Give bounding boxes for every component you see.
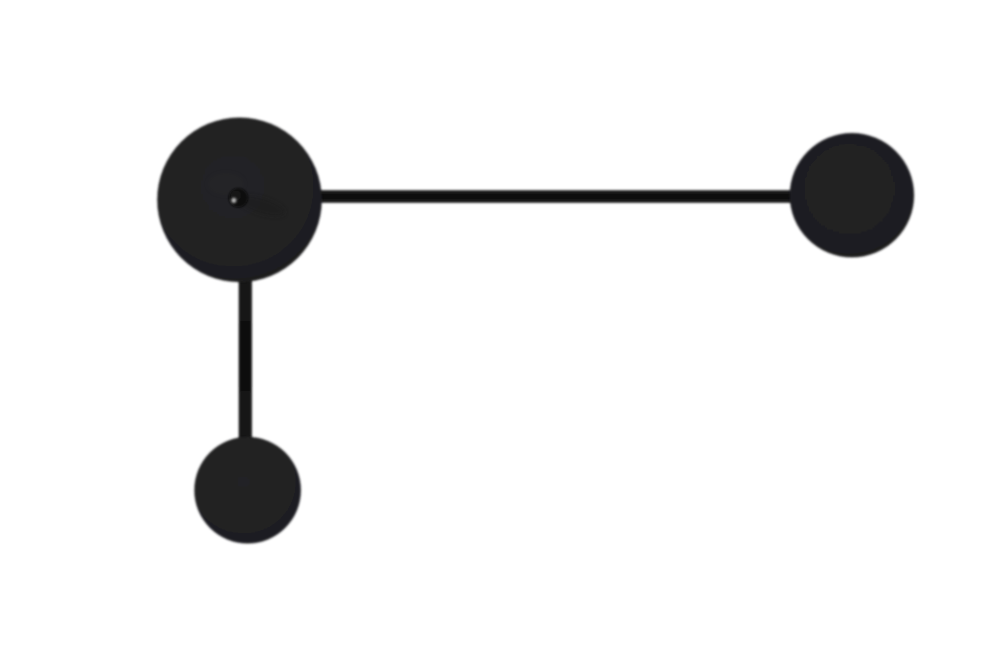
node right disc bbox=[790, 133, 914, 257]
node knob specular highlight bbox=[231, 198, 236, 203]
node bottom disc bbox=[194, 437, 301, 544]
wire knob shadow on disc bbox=[237, 191, 288, 220]
node large wall disc bbox=[157, 118, 322, 283]
wire vertical arm rod bbox=[239, 265, 252, 445]
wire horizontal arm rod bbox=[310, 190, 800, 203]
node sheen above knob bbox=[208, 173, 244, 195]
node center knob ball bbox=[229, 188, 248, 207]
